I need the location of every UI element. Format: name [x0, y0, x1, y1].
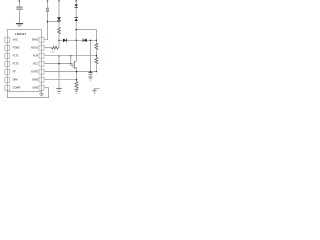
diode D5 [82, 39, 84, 43]
wire AUX long rail [44, 55, 96, 57]
svg-text:VAC: VAC [13, 38, 18, 42]
ground G2 bar3 [76, 92, 78, 94]
node E [76, 40, 77, 41]
resistor R1 [58, 27, 61, 34]
wire top drop D1 column [58, 0, 60, 17]
ground G7 bar2 [93, 91, 95, 93]
ground G4 bar2 [57, 90, 61, 92]
wire R4 down [95, 64, 97, 71]
ground G3 bar1 [88, 76, 92, 78]
svg-text:GND: GND [32, 86, 38, 90]
wire bottom return [7, 88, 48, 98]
wire ISNS row [44, 79, 76, 81]
pin box GATE [39, 69, 44, 74]
wire top stub 3 [58, 0, 60, 2]
wire C2 to ground [90, 75, 92, 77]
wire center column [58, 56, 60, 91]
svg-text:COMP: COMP [13, 86, 21, 90]
pin box DIM [5, 77, 10, 82]
svg-text:FSNS: FSNS [13, 46, 20, 50]
pin box AUX [39, 53, 44, 58]
ground G6 bar1 [39, 93, 43, 95]
diode D2 [75, 4, 78, 7]
svg-text:GATE: GATE [31, 70, 38, 74]
ground G7 bar1 [92, 89, 96, 91]
capacitor C2 plate2 [89, 73, 93, 75]
node K [90, 71, 92, 73]
svg-text:LM3447: LM3447 [15, 32, 26, 36]
pin box FLT2 [5, 61, 10, 66]
wire vertical rail to BIAS [44, 0, 47, 40]
pin box GND [39, 85, 44, 90]
ground G7 bar3 [93, 92, 96, 94]
wire drain column [76, 40, 78, 61]
svg-text:VCC: VCC [33, 62, 39, 66]
ground G4 bar3 [58, 93, 60, 95]
wire GATE row long [44, 71, 96, 73]
pin box FLT1 [5, 53, 10, 58]
wire D3 to node C [75, 21, 77, 40]
pin box FSNS [5, 45, 10, 50]
resistor R2 [52, 46, 59, 49]
wire R3 to node H [95, 50, 97, 57]
wire HOLD elbow [57, 40, 60, 47]
svg-text:100k: 100k [50, 52, 56, 54]
node N [96, 40, 97, 41]
wire branch to resistor chain [76, 30, 96, 43]
wire D1 to R1 [58, 22, 60, 28]
pin box HOLD [39, 45, 44, 50]
pin box BIAS [39, 37, 44, 42]
ground G4 bar1 [56, 87, 62, 89]
resistor R4 [95, 57, 98, 64]
resistor R3 [95, 43, 98, 50]
transistor Q1 source lead [74, 67, 76, 69]
node H [96, 55, 98, 57]
svg-text:FF: FF [13, 70, 17, 74]
diode D4 [63, 39, 66, 43]
wire aux return from edge [95, 88, 101, 90]
wire main horizontal rail [59, 39, 96, 41]
wire C1 to ground [18, 10, 20, 23]
ground G3 bar2 [89, 78, 91, 80]
node I [58, 63, 60, 65]
node G [70, 55, 71, 56]
svg-text:ISNS: ISNS [32, 78, 38, 82]
transistor Q1 source arrow [75, 67, 77, 68]
wire gate drive drop [71, 56, 73, 66]
pin box COMP [5, 85, 10, 90]
diode D3 [75, 17, 78, 19]
wire snubber drop [90, 40, 92, 72]
ground G2 bar1 [74, 88, 78, 90]
node M [96, 71, 97, 72]
wire R5 to ground [76, 89, 78, 92]
capacitor C1 [16, 7, 22, 9]
wire top stub 2 [47, 0, 49, 2]
capacitor C2 plate1 [89, 72, 93, 74]
fuse F1 [46, 8, 48, 12]
transistor Q1 drain lead [74, 60, 76, 62]
node A [47, 21, 49, 23]
svg-text:DIM: DIM [13, 78, 18, 82]
transistor Q1 channel plate [73, 61, 75, 69]
ground G3 bar3 [90, 79, 91, 81]
node D [58, 40, 59, 41]
svg-text:FLT2: FLT2 [13, 62, 20, 66]
node F [90, 40, 91, 41]
node L [76, 79, 78, 81]
ground G2 bar2 [75, 90, 78, 92]
wire top drop D2 column [75, 0, 77, 4]
wire R2 to HOLD pin [44, 47, 51, 49]
wire VCC row [44, 63, 71, 65]
pin box VAC [5, 37, 10, 42]
svg-text:AUX: AUX [33, 54, 39, 58]
resistor R5 [75, 81, 78, 88]
wire D2 to D3 [75, 8, 77, 17]
node B [58, 21, 59, 22]
pin box VCC [39, 61, 44, 66]
node C [75, 29, 77, 31]
node J [76, 71, 78, 73]
svg-text:BIAS: BIAS [32, 38, 38, 42]
wire top stub 1 [18, 0, 20, 2]
wire node B to node A [48, 21, 60, 23]
transistor Q1 gate plate [72, 63, 74, 69]
ground G1 [16, 23, 23, 25]
svg-text:HOLD: HOLD [31, 46, 38, 50]
IC U1 body [7, 30, 41, 92]
wire top drop to C1 [18, 0, 20, 7]
wire source down [76, 68, 78, 81]
pin box FF [5, 69, 10, 74]
wire top stub 4 [75, 0, 77, 2]
wire GND stub [41, 90, 43, 93]
diode D1 [57, 17, 61, 20]
svg-text:FLT1: FLT1 [13, 54, 20, 58]
ground G6 bar2 [40, 95, 43, 97]
pin box ISNS [39, 77, 44, 82]
wire R1 to node D [58, 34, 60, 40]
